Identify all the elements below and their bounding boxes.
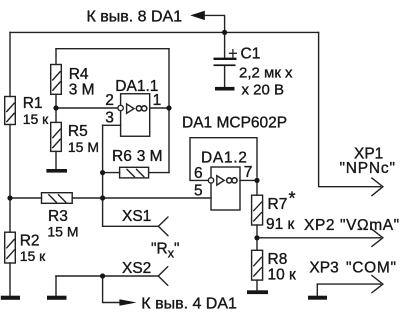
- wire R7 to node: [256, 225, 258, 250]
- wire feedback right vertical: [168, 49, 170, 173]
- wire bus to pin 5: [72, 197, 211, 199]
- wire DA1.2 feedback loop: [190, 138, 257, 181]
- svg-text:"Rx": "Rx": [151, 241, 179, 261]
- wire C1 branch: [224, 32, 226, 57]
- wire XS1 horizontal: [103, 225, 159, 227]
- junction R6 left node: [100, 170, 105, 175]
- svg-text:R1: R1: [23, 95, 43, 112]
- op-amp U2 DA1.2 body: [211, 167, 240, 210]
- arrowhead XP3 open: [372, 276, 383, 293]
- wire R4 upper lead: [55, 49, 57, 65]
- arrowhead XP1 open: [372, 178, 383, 196]
- svg-text:15 к: 15 к: [23, 111, 49, 127]
- wire pin3 vertical to XS1: [102, 125, 104, 226]
- wire to pin 4 arrow: [103, 276, 120, 303]
- svg-text:К выв. 8 DA1: К выв. 8 DA1: [87, 8, 183, 25]
- arrowhead to pin 8 DA1 filled: [190, 11, 205, 20]
- junction bus XS1 node: [100, 195, 105, 200]
- svg-text:DA1 MCP602P: DA1 MCP602P: [182, 114, 287, 131]
- junction left bus node: [7, 195, 12, 200]
- svg-text:7: 7: [244, 164, 253, 181]
- wire to pin 8 arrow: [204, 15, 225, 32]
- svg-text:х 20 В: х 20 В: [242, 82, 285, 99]
- op-amp DA1.2 infinity gain symbol: [227, 178, 238, 183]
- socket XS2 symbol: [158, 267, 168, 286]
- ground under C1: [215, 87, 235, 91]
- wire XP3 lead: [317, 283, 380, 285]
- wire pin7 to R7: [256, 180, 258, 195]
- svg-text:R7: R7: [268, 196, 288, 213]
- svg-text:"COM": "COM": [346, 259, 397, 276]
- wire R1 to left node: [9, 125, 11, 199]
- svg-text:R2: R2: [20, 232, 40, 249]
- wire top supply bus: [10, 31, 319, 33]
- svg-text:10 к: 10 к: [268, 267, 297, 284]
- wire XP2 lead: [257, 237, 381, 239]
- wire left rail upper: [9, 32, 11, 96]
- junction R4 R5 pin2 node: [53, 105, 58, 110]
- svg-text:1: 1: [153, 92, 162, 109]
- resistor R5: [51, 122, 62, 151]
- svg-text:3 М: 3 М: [69, 81, 95, 98]
- wire XS2 ground riser: [55, 276, 57, 296]
- wire node to pin 2: [56, 107, 118, 109]
- wire C1 to ground: [224, 66, 226, 87]
- wire R6 right lead: [149, 172, 169, 174]
- svg-text:К выв. 4 DA1: К выв. 4 DA1: [141, 296, 237, 313]
- wire pin 7 output: [240, 179, 257, 181]
- svg-text:3: 3: [105, 110, 114, 127]
- arrowhead to pin 4 DA1 filled: [119, 299, 136, 306]
- svg-text:5: 5: [194, 183, 203, 200]
- resistor R2: [5, 232, 16, 263]
- op-amp DA1.1 triangle symbol: [127, 104, 134, 113]
- wire bus left segment: [10, 197, 42, 199]
- wire R2 to ground: [9, 263, 11, 296]
- ground under R2: [1, 296, 20, 300]
- svg-text:C1: C1: [241, 45, 261, 62]
- junction DA1.1 output node: [166, 105, 171, 110]
- wire left node to R2: [9, 198, 11, 232]
- wire XP1 branch: [319, 32, 381, 186]
- wire XS2 horizontal: [56, 275, 158, 277]
- wire R6 left lead: [103, 172, 120, 174]
- op-amp DA1.1 infinity gain symbol: [136, 106, 147, 111]
- svg-text:15 М: 15 М: [47, 223, 78, 239]
- svg-text:XS1: XS1: [122, 208, 151, 225]
- ground XP3: [308, 296, 327, 300]
- svg-text:XP3: XP3: [309, 259, 338, 276]
- op-amp DA1.2 triangle symbol: [217, 176, 224, 185]
- resistor R1: [5, 97, 16, 125]
- wire XP3 ground riser: [316, 284, 318, 296]
- wire R5 upper lead: [55, 108, 57, 122]
- junction R7 R8 XP2 node: [254, 235, 259, 240]
- svg-text:R6: R6: [112, 148, 132, 165]
- svg-text:15 к: 15 к: [20, 248, 46, 264]
- svg-text:91 к: 91 к: [266, 216, 295, 233]
- ground under R8: [247, 290, 268, 294]
- junction C1 top node: [222, 30, 227, 35]
- svg-text:XP2 "VΩmA": XP2 "VΩmA": [304, 217, 400, 234]
- svg-text:3 М: 3 М: [137, 148, 163, 165]
- svg-text:2,2 мк х: 2,2 мк х: [239, 65, 293, 82]
- svg-text:XS2: XS2: [122, 260, 151, 277]
- socket XS1 symbol: [158, 217, 168, 236]
- junction XS2 node: [100, 273, 105, 278]
- resistor R6: [120, 167, 149, 178]
- junction DA1.2 output node: [254, 178, 259, 183]
- resistor R7: [252, 195, 263, 225]
- op-amp U1 DA1.1 body: [121, 94, 150, 137]
- ground under R5: [46, 169, 67, 173]
- wire pin 1 output: [150, 107, 169, 109]
- ground near XS2: [47, 296, 67, 300]
- svg-text:R5: R5: [68, 123, 88, 140]
- wire R4 lower lead: [55, 94, 57, 108]
- op-amp DA1.1 inverting input circle pin 2: [118, 105, 123, 110]
- svg-text:15 М: 15 М: [68, 139, 99, 155]
- svg-text:*: *: [289, 189, 296, 209]
- wire R8 to ground: [256, 280, 258, 290]
- svg-text:DA1.2: DA1.2: [201, 149, 248, 166]
- wire feedback top: [56, 48, 169, 50]
- op-amp DA1.2 inverting input circle pin 6: [208, 178, 213, 183]
- wire pin 3 lead: [103, 124, 121, 126]
- resistor R4: [51, 65, 62, 95]
- svg-text:R8: R8: [268, 251, 288, 268]
- resistor R3: [42, 193, 73, 204]
- wire R5 to ground: [55, 151, 57, 169]
- svg-text:2: 2: [105, 92, 114, 109]
- svg-text:"NPNc": "NPNc": [340, 160, 396, 177]
- capacitor C1 plus sign: [230, 50, 237, 57]
- arrowhead XP2 open: [372, 229, 383, 246]
- resistor R8: [252, 250, 263, 280]
- svg-text:6: 6: [194, 165, 203, 182]
- capacitor C1 plates: [214, 58, 237, 60]
